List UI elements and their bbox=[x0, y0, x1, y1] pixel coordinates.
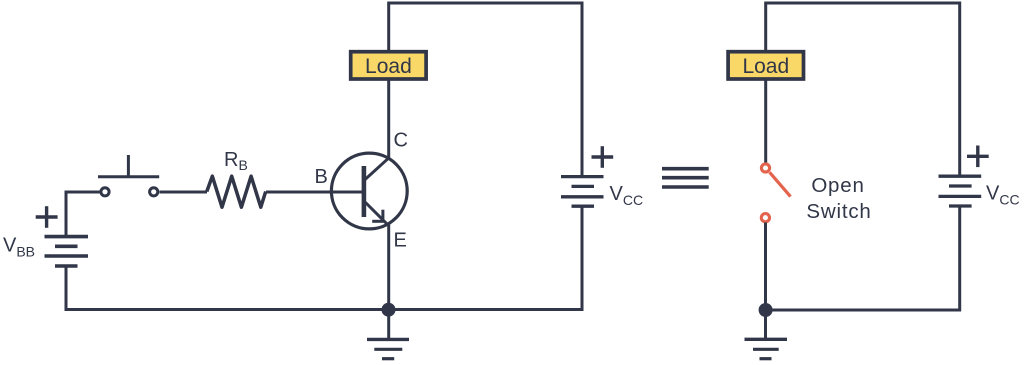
svg-text:C: C bbox=[394, 130, 408, 152]
wire: Load L1 bottom to collector bbox=[387, 80, 390, 159]
wire: switch to ground node (right) bbox=[764, 223, 767, 310]
wire: push button to resistor R_B bbox=[160, 191, 208, 194]
svg-text:E: E bbox=[394, 230, 407, 252]
wire: Vbb bottom to bottom rail bbox=[66, 266, 389, 310]
resistor R_B bbox=[207, 176, 266, 207]
wire: Vbb positive terminal to push button S1 bbox=[66, 192, 100, 236]
svg-text:B: B bbox=[315, 166, 328, 188]
wire: emitter to ground node bbox=[387, 224, 390, 310]
svg-text:Load: Load bbox=[365, 55, 412, 78]
push button S1 bbox=[98, 155, 159, 196]
wire: resistor to base bbox=[266, 191, 362, 194]
wire: Load L1 top via top rail to Vcc battery (left) bbox=[389, 3, 582, 176]
transistor Q1 bbox=[331, 153, 407, 229]
battery V_BB bbox=[45, 237, 89, 266]
svg-text:VCC: VCC bbox=[986, 183, 1020, 208]
node: ground junction (right) bbox=[759, 303, 773, 317]
ground (left circuit) bbox=[367, 310, 409, 359]
svg-text:VBB: VBB bbox=[3, 235, 35, 260]
equivalence symbol bbox=[662, 169, 709, 187]
switch SW1 (open) bbox=[761, 164, 790, 222]
ground (right circuit) bbox=[745, 309, 788, 359]
plus sign (V_CC right) bbox=[967, 146, 989, 168]
svg-text:Open: Open bbox=[811, 174, 864, 197]
svg-text:Switch: Switch bbox=[806, 200, 871, 223]
battery V_CC (left) bbox=[561, 177, 604, 207]
wire: bottom rail junction to Vcc battery (right) bbox=[766, 206, 960, 310]
load L2 bbox=[728, 52, 803, 79]
svg-text:Load: Load bbox=[742, 55, 789, 78]
svg-text:RB: RB bbox=[224, 149, 248, 173]
wire: bottom rail junction to Vcc battery (left) bbox=[389, 206, 582, 309]
plus sign (V_BB) bbox=[36, 206, 58, 228]
wire: Load L2 bottom to switch bbox=[764, 80, 767, 164]
battery V_CC (right) bbox=[939, 176, 982, 206]
wire: Load L2 top via top rail to Vcc battery (right) bbox=[766, 3, 960, 176]
plus sign (V_CC left) bbox=[592, 146, 614, 168]
svg-text:VCC: VCC bbox=[610, 183, 644, 208]
load L1 bbox=[351, 52, 426, 79]
node: emitter/ground junction bbox=[382, 303, 396, 317]
